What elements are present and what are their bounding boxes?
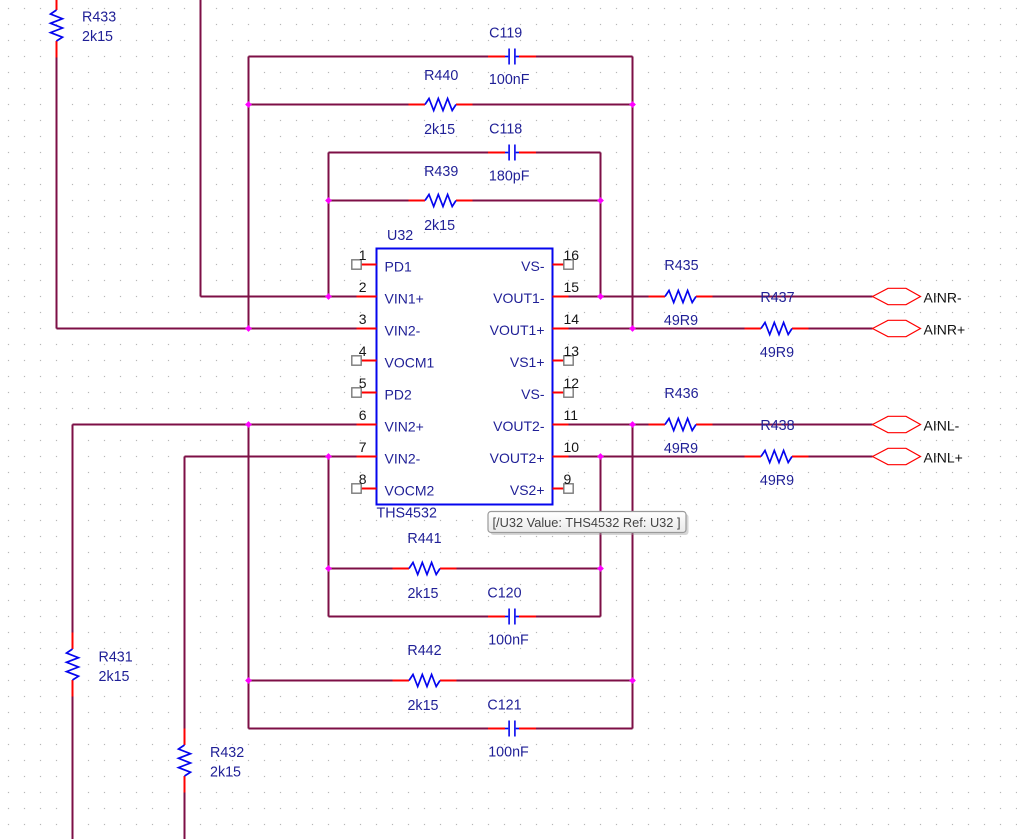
svg-text:49R9: 49R9 [760,473,794,489]
global label AINR+ [873,320,966,337]
svg-text:R437: R437 [760,290,794,306]
global label AINL+ [873,448,963,465]
U32 pin 3 (VIN2-) [357,311,421,339]
U32 pin 12 (VS-) [521,375,579,402]
wire [600,457,602,617]
junction [325,565,332,572]
junction [245,325,252,332]
svg-text:AINL-: AINL- [924,418,960,434]
svg-text:4: 4 [359,343,367,359]
svg-text:49R9: 49R9 [664,441,698,457]
svg-text:2k15: 2k15 [210,765,241,781]
wire [72,425,74,633]
junction [597,565,604,572]
svg-text:R433: R433 [82,10,116,26]
svg-text:2k15: 2k15 [407,586,438,602]
wire [536,56,633,58]
U32 pin 16 (VS-) [521,247,579,274]
capacitor C119 [488,26,536,89]
wire [56,55,58,329]
junction [597,197,604,204]
svg-text:VOCM1: VOCM1 [385,355,435,371]
resistor R435 [649,258,713,329]
junction [245,421,252,428]
wire [328,153,330,297]
U32 pin 14 (VOUT1+) [490,311,580,338]
svg-text:10: 10 [564,439,580,455]
svg-text:C119: C119 [489,26,522,42]
wire [632,57,634,329]
svg-text:R440: R440 [424,68,458,84]
wire [248,57,250,329]
wire [73,424,357,426]
wire [184,793,186,839]
svg-text:VIN2-: VIN2- [385,323,421,339]
wire [185,456,357,458]
U32 pin 5 (PD2) [352,375,412,403]
svg-text:8: 8 [359,471,367,487]
wire [713,424,873,426]
wire [200,0,202,297]
svg-text:R432: R432 [210,745,244,761]
wire [201,296,357,298]
U32 pin 15 (VOUT1-) [493,279,579,306]
capacitor C118 [488,122,536,185]
junction [629,421,636,428]
svg-text:C121: C121 [487,698,521,714]
junction [629,101,636,108]
wire [569,424,649,426]
wire [72,697,74,839]
svg-text:100nF: 100nF [488,633,529,649]
svg-text:R438: R438 [760,418,794,434]
svg-text:2: 2 [359,279,367,295]
junction [325,453,332,460]
svg-text:5: 5 [359,375,367,391]
resistor R441 [393,531,457,602]
wire [57,328,357,330]
wire [713,296,873,298]
junction [245,677,252,684]
svg-text:R439: R439 [424,164,458,180]
svg-text:THS4532: THS4532 [377,506,437,522]
svg-text:2k15: 2k15 [82,29,113,45]
svg-text:9: 9 [564,471,572,487]
svg-text:2k15: 2k15 [424,218,455,234]
wire [600,153,602,297]
svg-text:VIN1+: VIN1+ [385,291,424,307]
wire [473,104,633,106]
junction [325,197,332,204]
resistor R439 [409,164,473,234]
svg-text:R442: R442 [407,643,441,659]
svg-text:VOUT2+: VOUT2+ [490,450,545,466]
wire [536,152,601,154]
junction [597,293,604,300]
wire [184,457,186,729]
svg-text:[/U32 Value: THS4532 Ref: U32: [/U32 Value: THS4532 Ref: U32 ] [493,515,681,530]
wire [569,456,745,458]
svg-text:R436: R436 [664,386,698,402]
wire [569,296,649,298]
U32 pin 7 (VIN2-) [357,439,421,467]
svg-text:2k15: 2k15 [424,122,455,138]
svg-text:VOUT1-: VOUT1- [493,290,545,306]
wire [457,680,633,682]
svg-text:2k15: 2k15 [99,669,130,685]
svg-text:U32: U32 [387,228,413,244]
U32 pin 8 (VOCM2) [352,471,435,499]
global label AINL- [873,416,960,433]
wire [329,568,393,570]
svg-text:R435: R435 [664,258,698,274]
capacitor C120 [487,586,536,649]
wire [473,200,601,202]
wire [536,728,633,730]
wire [536,616,601,618]
svg-text:100nF: 100nF [488,745,529,761]
svg-text:R441: R441 [407,531,441,547]
resistor R440 [409,68,473,138]
svg-text:49R9: 49R9 [664,313,698,329]
svg-text:180pF: 180pF [489,169,530,185]
U32 pin 1 (PD1) [352,247,412,275]
junction [597,453,604,460]
svg-text:VIN2-: VIN2- [385,451,421,467]
svg-text:VS1+: VS1+ [510,354,545,370]
svg-text:16: 16 [564,247,580,263]
wire [569,328,745,330]
wire [248,425,250,729]
svg-text:AINR+: AINR+ [924,322,966,338]
junction [325,293,332,300]
U32 pin 11 (VOUT2-) [493,407,578,434]
svg-text:R431: R431 [99,650,133,666]
svg-text:C118: C118 [489,122,522,138]
svg-text:6: 6 [359,407,367,423]
U32 pin 2 (VIN1+) [357,279,424,307]
wire [329,616,489,618]
wire [329,200,409,202]
svg-text:VS-: VS- [521,386,545,402]
wire [249,104,409,106]
svg-text:15: 15 [564,279,580,295]
junction [629,325,636,332]
wire [809,328,873,330]
U32 pin 10 (VOUT2+) [490,439,580,466]
svg-text:7: 7 [359,439,367,455]
wire [328,457,330,617]
U32 pin 6 (VIN2+) [357,407,424,435]
resistor R437 [745,290,809,361]
svg-text:3: 3 [359,311,367,327]
svg-text:11: 11 [564,407,579,423]
U32 pin 9 (VS2+) [510,471,573,498]
svg-text:VOUT1+: VOUT1+ [490,322,545,338]
svg-text:49R9: 49R9 [760,345,794,361]
wire [632,425,634,729]
svg-text:AINL+: AINL+ [924,450,963,466]
resistor R433 [51,0,117,58]
wire [809,456,873,458]
svg-text:13: 13 [564,343,580,359]
svg-text:VIN2+: VIN2+ [385,419,424,435]
U32 pin 4 (VOCM1) [352,343,435,371]
svg-text:PD2: PD2 [385,387,412,403]
svg-text:14: 14 [564,311,580,327]
wire [249,680,393,682]
op-amp U32 THS4532 body [377,228,553,522]
svg-text:C120: C120 [487,586,521,602]
svg-text:VOUT2-: VOUT2- [493,418,545,434]
svg-text:12: 12 [564,375,580,391]
U32 pin 13 (VS1+) [510,343,579,370]
wire [249,728,489,730]
svg-text:VS-: VS- [521,258,545,274]
svg-text:100nF: 100nF [489,72,530,88]
tooltip [488,512,689,536]
junction [629,677,636,684]
svg-text:PD1: PD1 [385,259,412,275]
svg-text:AINR-: AINR- [924,290,962,306]
svg-text:VS2+: VS2+ [510,482,545,498]
resistor R442 [393,643,457,714]
global label AINR- [873,288,962,305]
resistor R432 [179,729,245,793]
svg-text:1: 1 [359,247,367,263]
resistor R431 [67,633,133,697]
resistor R436 [649,386,713,457]
svg-text:VOCM2: VOCM2 [385,483,435,499]
svg-text:2k15: 2k15 [407,698,438,714]
wire [329,152,489,154]
capacitor C121 [487,698,536,761]
junction [245,101,252,108]
resistor R438 [745,418,809,489]
wire [457,568,601,570]
wire [249,56,489,58]
